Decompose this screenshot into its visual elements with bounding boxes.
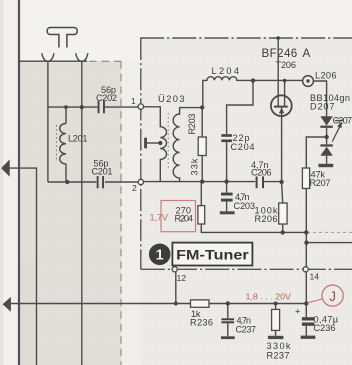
numbered tag 1 xyxy=(149,244,171,266)
channel bar xyxy=(274,106,288,108)
capacitor C237 body xyxy=(227,304,229,319)
pin 2 xyxy=(138,179,143,184)
svg-text:1: 1 xyxy=(131,96,136,106)
ground bar C236 xyxy=(301,336,316,339)
wire: antenna lead 2 full down xyxy=(81,61,83,365)
wire inner rail to right xyxy=(307,242,352,244)
resistor R207 xyxy=(306,137,326,168)
junction source node xyxy=(279,180,283,184)
antenna symbol xyxy=(47,28,77,48)
transformer tap to shield bar xyxy=(147,142,161,144)
ground bar D207 xyxy=(318,164,333,167)
svg-text:14: 14 xyxy=(310,272,320,282)
svg-text:33k: 33k xyxy=(190,158,200,175)
svg-text:R207: R207 xyxy=(310,178,331,188)
svg-text:+: + xyxy=(295,307,301,318)
junction inner rail xyxy=(304,240,308,244)
svg-text:R236: R236 xyxy=(190,317,213,327)
svg-text:C203: C203 xyxy=(234,201,256,211)
transformer U203 core xyxy=(167,113,169,170)
wire L206 to varicap xyxy=(313,81,326,116)
wire lower rail dashed continuation xyxy=(307,231,352,233)
inductor L206 (bead) xyxy=(303,76,314,87)
junction R237 tap xyxy=(274,302,278,306)
FM-Tuner label box xyxy=(172,243,252,266)
svg-text:12: 12 xyxy=(177,273,187,283)
junction pin14 rail xyxy=(304,301,308,305)
inductor L201 xyxy=(65,107,67,123)
transistor T206 body circle xyxy=(271,95,292,116)
left module border line xyxy=(18,0,20,365)
svg-text:1,8 . . . 20V: 1,8 . . . 20V xyxy=(246,292,292,302)
svg-text:BF246: BF246 xyxy=(262,47,298,60)
svg-text:L206: L206 xyxy=(315,71,337,81)
pin 14 wire xyxy=(305,272,307,317)
junction R206 bottom xyxy=(281,230,285,234)
source lead with arrow xyxy=(281,107,283,182)
junction node R203 top xyxy=(200,105,204,109)
varicap arrow xyxy=(332,127,339,142)
svg-text:1,7V: 1,7V xyxy=(150,213,169,223)
ground bar R237 xyxy=(268,336,284,339)
capacitor C204 xyxy=(221,134,232,137)
junction gate lead xyxy=(283,79,287,83)
wire from arrow xyxy=(10,168,37,365)
junction antenna lead 2 / C202 xyxy=(80,105,84,109)
pin 1 xyxy=(138,104,143,109)
transformer U203 primary xyxy=(144,107,167,182)
wire L204 junction down to C204 xyxy=(227,81,253,135)
drain lead to rail xyxy=(277,38,279,106)
test point J xyxy=(308,299,324,303)
junction pin 12 / supply rail xyxy=(174,302,178,306)
resistor R204 in red service box xyxy=(161,201,196,232)
connection arrow left lower xyxy=(3,297,11,312)
varicap diode D207b xyxy=(320,144,332,146)
svg-text:Ü203: Ü203 xyxy=(158,93,185,104)
FM tuner module boundary (dash-dot box) xyxy=(140,38,142,269)
svg-text:C207: C207 xyxy=(333,115,352,125)
bottom supply rail xyxy=(11,303,306,305)
junction C204 / C203 on ground rail xyxy=(224,179,228,183)
ground rail inside module xyxy=(144,181,282,183)
svg-text:C206: C206 xyxy=(251,168,272,178)
svg-text:D207: D207 xyxy=(310,101,335,111)
ground bar C237 xyxy=(221,336,235,339)
gate lead xyxy=(284,80,286,106)
chassis boundary line (antenna input) xyxy=(20,60,88,62)
ground bar C203 xyxy=(220,211,235,214)
junction L201 top xyxy=(64,105,68,109)
wire: ground rail left (C201 row) xyxy=(48,181,138,183)
capacitor C202 xyxy=(98,101,100,113)
svg-text:C201: C201 xyxy=(92,167,113,177)
antenna socket cup right xyxy=(76,53,88,61)
wire: antenna lead 1 down to tank top xyxy=(47,61,49,107)
varicap diode D207a xyxy=(320,116,332,125)
svg-text:L201: L201 xyxy=(68,134,88,144)
pin 12 xyxy=(172,267,177,272)
wire: tank left leg xyxy=(47,107,49,182)
junction R207 line / lower rail xyxy=(304,230,308,234)
junction L201 bottom xyxy=(65,180,69,184)
pin 14 xyxy=(303,267,308,272)
resistor R237 body xyxy=(275,304,277,310)
svg-text:2: 2 xyxy=(132,183,137,193)
junction L204 / gate node xyxy=(251,78,255,82)
svg-text:R206: R206 xyxy=(255,214,278,224)
junction varicap center node xyxy=(324,135,328,139)
resistor R203 xyxy=(201,107,203,137)
capacitor C206 (series) xyxy=(256,176,258,188)
junction drain at module edge xyxy=(276,36,280,40)
svg-text:C204: C204 xyxy=(231,142,255,152)
wire: tank top horizontal xyxy=(48,106,138,108)
resistor R204 body xyxy=(200,182,202,206)
svg-text:A: A xyxy=(303,47,311,60)
capacitor C201 xyxy=(97,176,99,188)
svg-text:R204: R204 xyxy=(175,213,194,223)
inductor L204 xyxy=(203,77,303,108)
junction node R203 bottom xyxy=(200,179,204,183)
junction transformer tap xyxy=(158,141,162,145)
svg-text:C237: C237 xyxy=(236,325,257,335)
wire lower rail xyxy=(201,224,307,232)
shield dashed line vertical xyxy=(120,61,122,365)
svg-text:R203: R203 xyxy=(187,114,197,135)
junction C237 tap xyxy=(226,301,230,305)
resistor R236 xyxy=(191,300,210,307)
svg-text:C236: C236 xyxy=(314,323,336,333)
transformer U203 secondary xyxy=(173,108,203,182)
resistor R206 body xyxy=(282,182,283,203)
connection arrow left upper xyxy=(1,159,10,176)
svg-text:C202: C202 xyxy=(96,93,117,103)
svg-text:J: J xyxy=(329,289,336,304)
antenna socket cup left xyxy=(42,53,54,61)
svg-text:R237: R237 xyxy=(267,350,290,360)
pin 12 wire xyxy=(175,272,177,304)
svg-text:1: 1 xyxy=(156,247,164,263)
svg-text:FM-Tuner: FM-Tuner xyxy=(176,247,249,263)
capacitor C203 with chassis bar xyxy=(226,182,228,193)
